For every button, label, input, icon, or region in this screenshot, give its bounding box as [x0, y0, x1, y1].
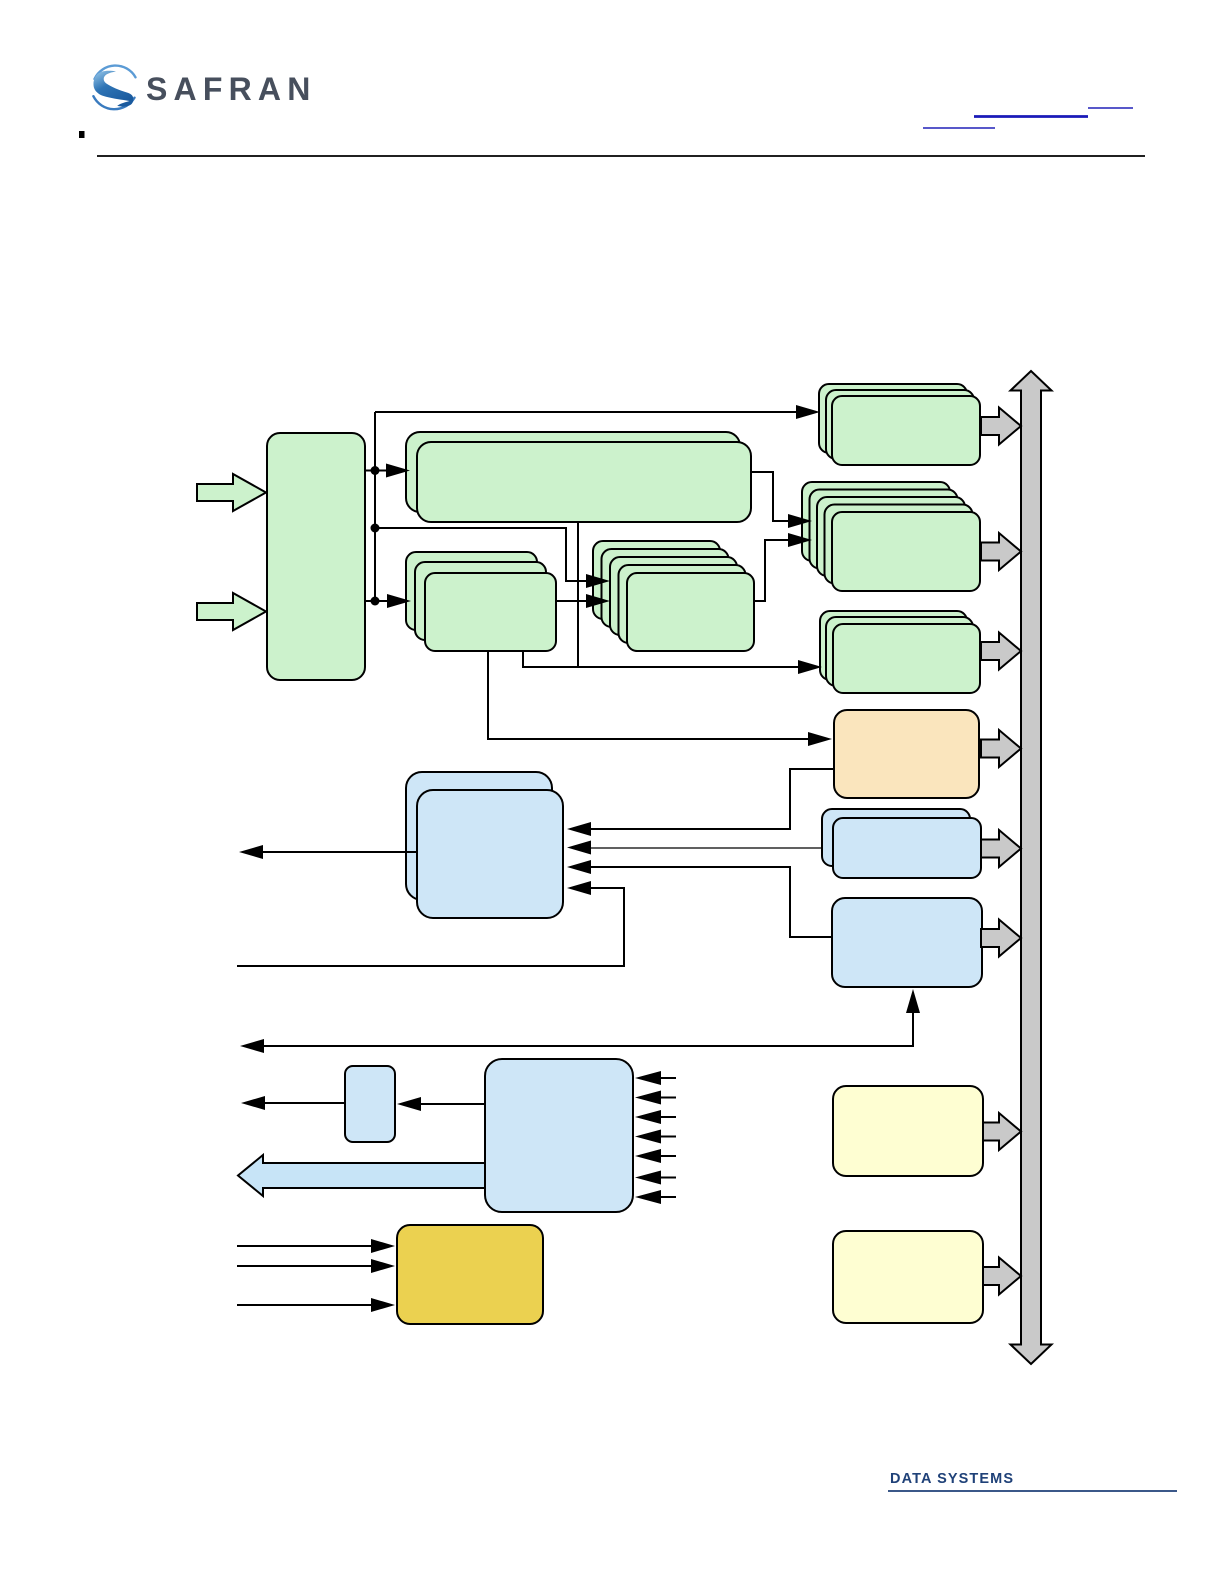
small black mark [79, 131, 85, 138]
blue 2-stack upper-left (back) [406, 772, 552, 900]
gray arrow: orange block to bus [981, 730, 1021, 767]
junction dot A [371, 466, 380, 475]
footer rule [888, 1490, 1177, 1492]
gray arrow: right 5-stack to bus [981, 533, 1021, 570]
wire: lower feedback into upper blue stack [237, 888, 624, 966]
green 5-stack right [802, 482, 980, 591]
gray arrow: top-right stack to bus [981, 408, 1021, 445]
wire: stub to left 3-stack [365, 600, 389, 602]
svg-text:SAFRAN: SAFRAN [146, 71, 317, 107]
green 3-stack bottom right [820, 611, 980, 693]
gray arrow: blue block to bus [981, 920, 1021, 957]
gray arrow: bottom-right stack to bus [981, 633, 1021, 670]
wire: upper blue stack output left [262, 851, 417, 853]
wire: big blue block to small blue block [419, 1103, 485, 1105]
blue redacted line B [974, 115, 1088, 118]
green 3-stack left [406, 552, 556, 651]
green 3-stack top right [819, 384, 980, 465]
blue 2-stack right (back) [822, 809, 970, 866]
blue 2-stack upper-left (front) [417, 790, 563, 918]
wire: top run to top-right stack [375, 411, 798, 413]
left tall green block [267, 433, 365, 680]
orange block [834, 710, 979, 798]
gray arrow: blue 2-stack to bus [981, 830, 1021, 867]
wire: left 3-stack to orange block [488, 651, 810, 739]
header rule [97, 155, 1145, 157]
green input arrow 1 [197, 474, 266, 511]
bus (vertical double arrow) [1011, 371, 1052, 1364]
wire: small blue block output left [264, 1102, 345, 1104]
wire: trunk to center 5-stack [375, 528, 588, 581]
wire: center 5-stack to right 5-stack [754, 540, 790, 601]
long green block stack (front) [417, 442, 751, 522]
wire: long bottom run with up arrow into blue block [263, 1012, 913, 1046]
wire: stub to long block [365, 470, 388, 472]
wire: orange block to blue 2-stack (left path) [589, 769, 834, 829]
wire: left 3-stack to bottom-right stack [523, 651, 800, 667]
blue redacted line A [1088, 107, 1133, 109]
big blue block (bottom) [485, 1059, 633, 1212]
blue redacted line C [923, 127, 995, 129]
wire: right blue 2-stack to upper blue stack (thin) [589, 847, 822, 849]
wire: left 3-stack to center 5-stack [556, 600, 588, 602]
green 5-stack center [593, 541, 754, 651]
wire: bottom-right blue block to upper blue stack [589, 867, 832, 937]
7 input stubs into big blue block [635, 1071, 676, 1204]
wide blue output arrow [238, 1155, 485, 1196]
green input arrow 2 [197, 593, 266, 630]
yellow block 1 [833, 1086, 983, 1176]
gray arrow: yellow block 2 to bus [983, 1258, 1021, 1295]
wire: vertical trunk from left block [374, 412, 376, 601]
long green block stack (back) [406, 432, 740, 512]
blue block bottom right [832, 898, 982, 987]
yellow block 2 [833, 1231, 983, 1323]
3 input lines into gold block [237, 1239, 395, 1312]
junction dot B [371, 524, 380, 533]
blue 2-stack right (front) [833, 818, 981, 878]
Safran logo S icon [93, 66, 135, 110]
wire: long block to right 5-stack [752, 472, 790, 521]
wire: long block bottom drop [577, 522, 579, 667]
gold block [397, 1225, 543, 1324]
gray arrow: yellow block 1 to bus [983, 1113, 1021, 1150]
svg-text:DATA SYSTEMS: DATA SYSTEMS [890, 1471, 1014, 1487]
junction dot C [371, 597, 380, 606]
small blue block [345, 1066, 395, 1142]
